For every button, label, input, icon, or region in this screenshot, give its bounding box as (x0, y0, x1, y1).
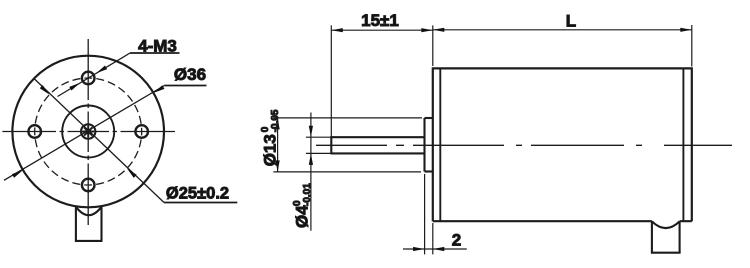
M3 hole left (28, 125, 41, 138)
label Ø13 0/-0.05 (rotated) (260, 109, 281, 166)
M3 hole top (82, 72, 95, 85)
horizontal centerline (front view) (2, 131, 175, 133)
extension line 15±1 left (shaft tip) (330, 25, 332, 137)
svg-text:L: L (566, 12, 576, 31)
arrow 15 left (331, 28, 343, 32)
arrow Ø36 upper-right (152, 85, 164, 94)
M3 hole right (135, 125, 148, 138)
arrow Ø13 up (276, 118, 280, 129)
extension line L right (body rear) (691, 25, 693, 67)
arrow Ø36 lower-left (12, 168, 24, 177)
dimension line Ø36 (diagonal through center at ~30°) (4, 86, 207, 181)
svg-text:15±1: 15±1 (361, 11, 399, 30)
horizontal centerline (side view) (316, 144, 732, 146)
outer circle Ø36 (motor body front) (12, 56, 164, 208)
arrow 2 right (433, 247, 445, 251)
extension line Ø13 bottom (273, 171, 421, 173)
arrow 4-M3 upper-right (95, 65, 107, 75)
extension line Ø13 top (273, 117, 422, 119)
shaft circle Ø4 (front view) (81, 124, 95, 138)
arrow L left (433, 28, 445, 32)
bolt circle Ø25 (dashed) (35, 78, 142, 185)
arrow Ø25 lower-right (125, 167, 136, 178)
svg-text:Ø36: Ø36 (174, 65, 206, 84)
rear end-cap line (682, 68, 684, 221)
center blob (85, 129, 91, 135)
cable tab (front view bottom) (75, 207, 103, 241)
extension tick shaft bottom (306, 152, 331, 154)
front end-cap line (439, 68, 441, 221)
motor body outline (433, 68, 692, 221)
dimension line Ø4 (310, 113, 312, 231)
dimension line L (433, 29, 692, 31)
extension line 15±1 / L (body front face) (432, 25, 434, 66)
leader 4-M3 (through top hole) (58, 53, 180, 97)
cable bushing (side view bottom) (651, 221, 681, 253)
shaft Ø4 (331, 136, 424, 154)
svg-text:-0.05: -0.05 (270, 109, 281, 132)
dimension line 2 (403, 248, 467, 250)
vertical centerline (front view) (87, 39, 89, 225)
arrow Ø25 upper-left (40, 85, 51, 96)
boss circle Ø13 (front view) (62, 106, 114, 158)
arrow Ø13 down (276, 160, 280, 172)
label Ø4 0/-0.01 (rotated) (292, 183, 313, 228)
arrow L right (680, 28, 692, 32)
arrow Ø4 up (below shaft) (309, 153, 313, 165)
dimension line 15±1 (331, 29, 433, 31)
pilot boss Ø13 (425, 118, 433, 172)
arrow 2 left (413, 247, 425, 251)
arrow 4-M3 lower-left (69, 81, 81, 91)
extension line 2-dim right (body face below) (432, 223, 434, 254)
M3 hole bottom (82, 179, 95, 192)
dimension line Ø25 (diagonal through center at ~45°) (35, 79, 238, 203)
svg-text:Ø25±0.2: Ø25±0.2 (166, 185, 229, 203)
extension tick shaft top (306, 136, 331, 138)
center star spokes (82, 126, 94, 138)
svg-text:-0.01: -0.01 (302, 183, 313, 206)
arrow 15 right (421, 28, 433, 32)
arrow Ø4 down (above shaft) (309, 126, 313, 138)
svg-text:2: 2 (452, 231, 461, 250)
svg-text:Ø4: Ø4 (293, 205, 312, 228)
dimension line Ø13 (277, 118, 279, 172)
svg-text:Ø13: Ø13 (261, 134, 280, 166)
svg-text:4-M3: 4-M3 (138, 37, 177, 56)
extension line 2-dim left (boss face) (424, 174, 426, 254)
